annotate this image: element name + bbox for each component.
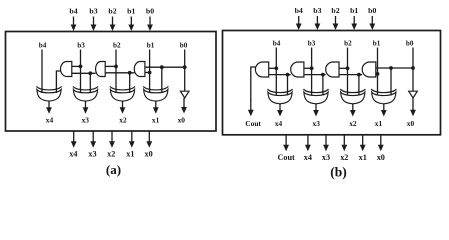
svg-text:x3: x3: [322, 153, 330, 162]
box B enclosure: [223, 31, 441, 135]
XOR gate X1 for output x1 (a): [144, 89, 168, 101]
output arrow Cout below box B: [285, 135, 287, 146]
junction dot b3/B2: [310, 66, 314, 70]
junction dot carry to x3 xor: [88, 71, 92, 75]
input arrow b4 into box B: [298, 16, 300, 25]
svg-text:b1: b1: [350, 6, 358, 15]
wire B1 bottom input from B2 output: [269, 74, 291, 76]
output arrow x4 below box B: [307, 135, 309, 146]
svg-text:x0: x0: [178, 115, 186, 124]
svg-text:b4: b4: [69, 7, 77, 16]
AND gate B3 (b2 AND carry): [326, 62, 339, 77]
junction dot b1/B4: [376, 72, 380, 76]
svg-text:b0: b0: [180, 41, 188, 49]
output arrow x4 below box A: [73, 132, 75, 143]
wire A3 top input to b0: [145, 66, 185, 68]
svg-text:(b): (b): [330, 164, 347, 179]
svg-text:b2: b2: [108, 7, 116, 16]
wire B4 top input to b0: [376, 67, 413, 69]
output arrow x1 inside box A: [155, 101, 157, 109]
svg-text:x1: x1: [359, 153, 367, 162]
XOR gate X2 for output x2 (a): [110, 89, 134, 101]
XOR gate Y4 for output x4 (b): [268, 92, 292, 104]
junction dot b0 tap to x1 xor: [160, 65, 164, 69]
svg-text:b3: b3: [89, 7, 97, 16]
output arrow x0 below box B: [380, 135, 382, 146]
junction dot b2/A2: [114, 65, 118, 69]
svg-text:x1: x1: [375, 119, 383, 128]
output arrow x1 below box B: [362, 135, 364, 146]
svg-text:b0: b0: [146, 7, 154, 16]
svg-text:b4: b4: [39, 41, 47, 49]
svg-text:b2: b2: [331, 6, 339, 15]
svg-text:x4: x4: [46, 115, 54, 124]
svg-text:x2: x2: [119, 115, 127, 124]
svg-text:x2: x2: [340, 153, 348, 162]
XOR gate Y1 for output x1 (b): [372, 92, 396, 104]
wire carry down to x4 xor (b): [287, 75, 289, 96]
wire b2 column (a): [115, 50, 117, 94]
input arrow b0 into box B: [371, 16, 373, 25]
inverter for x0 (a): [180, 91, 189, 98]
junction dot b0 tap to x1 xor (b): [389, 66, 393, 70]
wire A3 bottom input stub to b1: [145, 72, 150, 74]
output arrow x2 inside box B: [352, 104, 354, 112]
box A enclosure: [6, 32, 217, 132]
svg-text:b2: b2: [113, 41, 121, 49]
svg-text:b1: b1: [127, 7, 135, 16]
wire carry down to x3 xor (b): [322, 75, 324, 96]
junction dot carry to x3 xor (b): [321, 73, 325, 77]
svg-text:x1: x1: [152, 115, 160, 124]
svg-text:b4: b4: [295, 6, 303, 15]
output arrow x1 below box A: [131, 132, 133, 143]
wire b4 column (a): [41, 50, 43, 94]
svg-text:b0: b0: [406, 39, 414, 47]
wire B2 top input stub to b3: [304, 67, 312, 69]
wire b1 column (b): [377, 48, 379, 96]
junction dot carry to x2 xor (b): [357, 73, 361, 77]
wire b3 column (b): [311, 48, 313, 96]
input arrow b2 into box B: [335, 16, 337, 25]
junction dot b2/B3: [346, 66, 350, 70]
svg-text:b1: b1: [373, 39, 381, 47]
output arrow x3 inside box A: [85, 101, 87, 109]
svg-text:x3: x3: [88, 149, 96, 158]
input arrow b3 into box A: [93, 17, 95, 27]
wire b0 column (b): [412, 48, 414, 92]
input arrow b4 into box A: [73, 17, 75, 27]
svg-text:x2: x2: [107, 149, 115, 158]
svg-text:b0: b0: [368, 6, 376, 15]
wire b0 column (a): [184, 50, 186, 92]
wire B2 bottom input from B3 output: [304, 74, 326, 76]
output arrow x1 inside box B: [383, 104, 385, 112]
wire B4 bottom input stub to b1: [376, 73, 378, 75]
wire carry down to x3 xor: [89, 73, 91, 93]
output arrow x2 below box B: [343, 135, 345, 146]
junction dot b4/B1: [274, 66, 278, 70]
AND gate A1 (b3 AND carry): [60, 62, 71, 77]
output arrow x2 inside box A: [122, 101, 124, 109]
wire b3 column (a): [80, 50, 82, 94]
wire B1 top input stub to b4: [269, 67, 277, 69]
wire b0 tap down to x1 xor: [161, 67, 163, 93]
wire B3 top input stub to b2: [339, 67, 348, 69]
junction dot carry to x4 xor (b): [286, 73, 290, 77]
svg-text:b3: b3: [308, 39, 316, 47]
output arrow x4 inside box B: [279, 104, 281, 112]
output arrow x3 below box B: [325, 135, 327, 146]
wire A1 top input stub to b3: [72, 65, 81, 67]
AND gate A3 (b1 AND b0): [134, 62, 145, 77]
input arrow b1 into box A: [130, 17, 132, 27]
AND gate A2 (b2 AND carry): [96, 62, 106, 77]
output arrow Cout inside box B: [250, 99, 252, 111]
input arrow b2 into box A: [112, 17, 114, 27]
wire b2 column (b): [347, 48, 349, 96]
wire b4 column (b): [275, 48, 277, 96]
output arrow x0 inside box B: [412, 98, 414, 111]
svg-text:b1: b1: [147, 41, 155, 49]
XOR gate Y3 for output x3 (b): [304, 92, 328, 104]
output arrow x2 below box A: [111, 132, 113, 143]
AND gate B2 (b3 AND carry): [291, 62, 304, 77]
svg-text:b3: b3: [77, 41, 85, 49]
junction dot carry to x2 xor: [128, 71, 132, 75]
svg-text:x2: x2: [349, 119, 357, 128]
XOR gate X3 for output x3 (a): [73, 89, 97, 101]
svg-text:x4: x4: [304, 153, 312, 162]
AND gate B1 (b4 AND carry -> Cout): [255, 62, 268, 77]
input arrow b3 into box B: [316, 16, 318, 25]
output arrow x0 below box A: [148, 132, 150, 143]
input arrow b1 into box B: [353, 16, 355, 25]
svg-text:x3: x3: [313, 119, 321, 128]
XOR gate Y2 for output x2 (b): [341, 92, 365, 104]
svg-text:x0: x0: [377, 153, 385, 162]
svg-text:x3: x3: [82, 115, 90, 124]
input arrow b0 into box A: [149, 17, 151, 27]
XOR gate X4 for output x4 (a): [37, 89, 61, 101]
junction dot b1/A3: [148, 71, 152, 75]
svg-text:(a): (a): [106, 162, 121, 177]
wire b0 tap down to x1 xor (b): [390, 68, 392, 96]
wire B1 output to Cout: [251, 67, 256, 100]
wire b1 column (a): [149, 50, 151, 94]
svg-text:x1: x1: [126, 149, 134, 158]
svg-text:b3: b3: [313, 6, 321, 15]
wire carry down to x2 xor (b): [358, 75, 360, 96]
wire A1 bottom input from A2 output: [72, 72, 96, 74]
svg-text:x4: x4: [275, 119, 283, 128]
output arrow x3 inside box B: [315, 104, 317, 112]
svg-text:x4: x4: [69, 149, 77, 158]
inverter for x0 (b): [409, 91, 418, 98]
output arrow x4 inside box A: [48, 101, 50, 109]
output arrow x3 below box A: [92, 132, 94, 143]
wire A2 bottom input from A3 output: [105, 72, 134, 74]
svg-text:Cout: Cout: [277, 153, 295, 162]
wire A1 output jog to x4 xor: [56, 71, 60, 93]
junction dot on b0 column (b): [411, 66, 415, 70]
output arrow x0 inside box A: [183, 98, 185, 109]
AND gate B4 (b1 AND b0): [362, 62, 376, 77]
svg-text:x0: x0: [407, 119, 415, 128]
junction dot b3/A1: [79, 65, 83, 69]
svg-text:b4: b4: [273, 39, 281, 47]
junction dot on b0 column: [183, 65, 187, 69]
wire A2 top input stub to b2: [105, 65, 116, 67]
wire carry down to x2 xor: [129, 73, 131, 93]
svg-text:x0: x0: [145, 149, 153, 158]
svg-text:b2: b2: [344, 39, 352, 47]
svg-text:Cout: Cout: [245, 119, 261, 128]
wire B3 bottom input from B4 output: [339, 74, 362, 76]
